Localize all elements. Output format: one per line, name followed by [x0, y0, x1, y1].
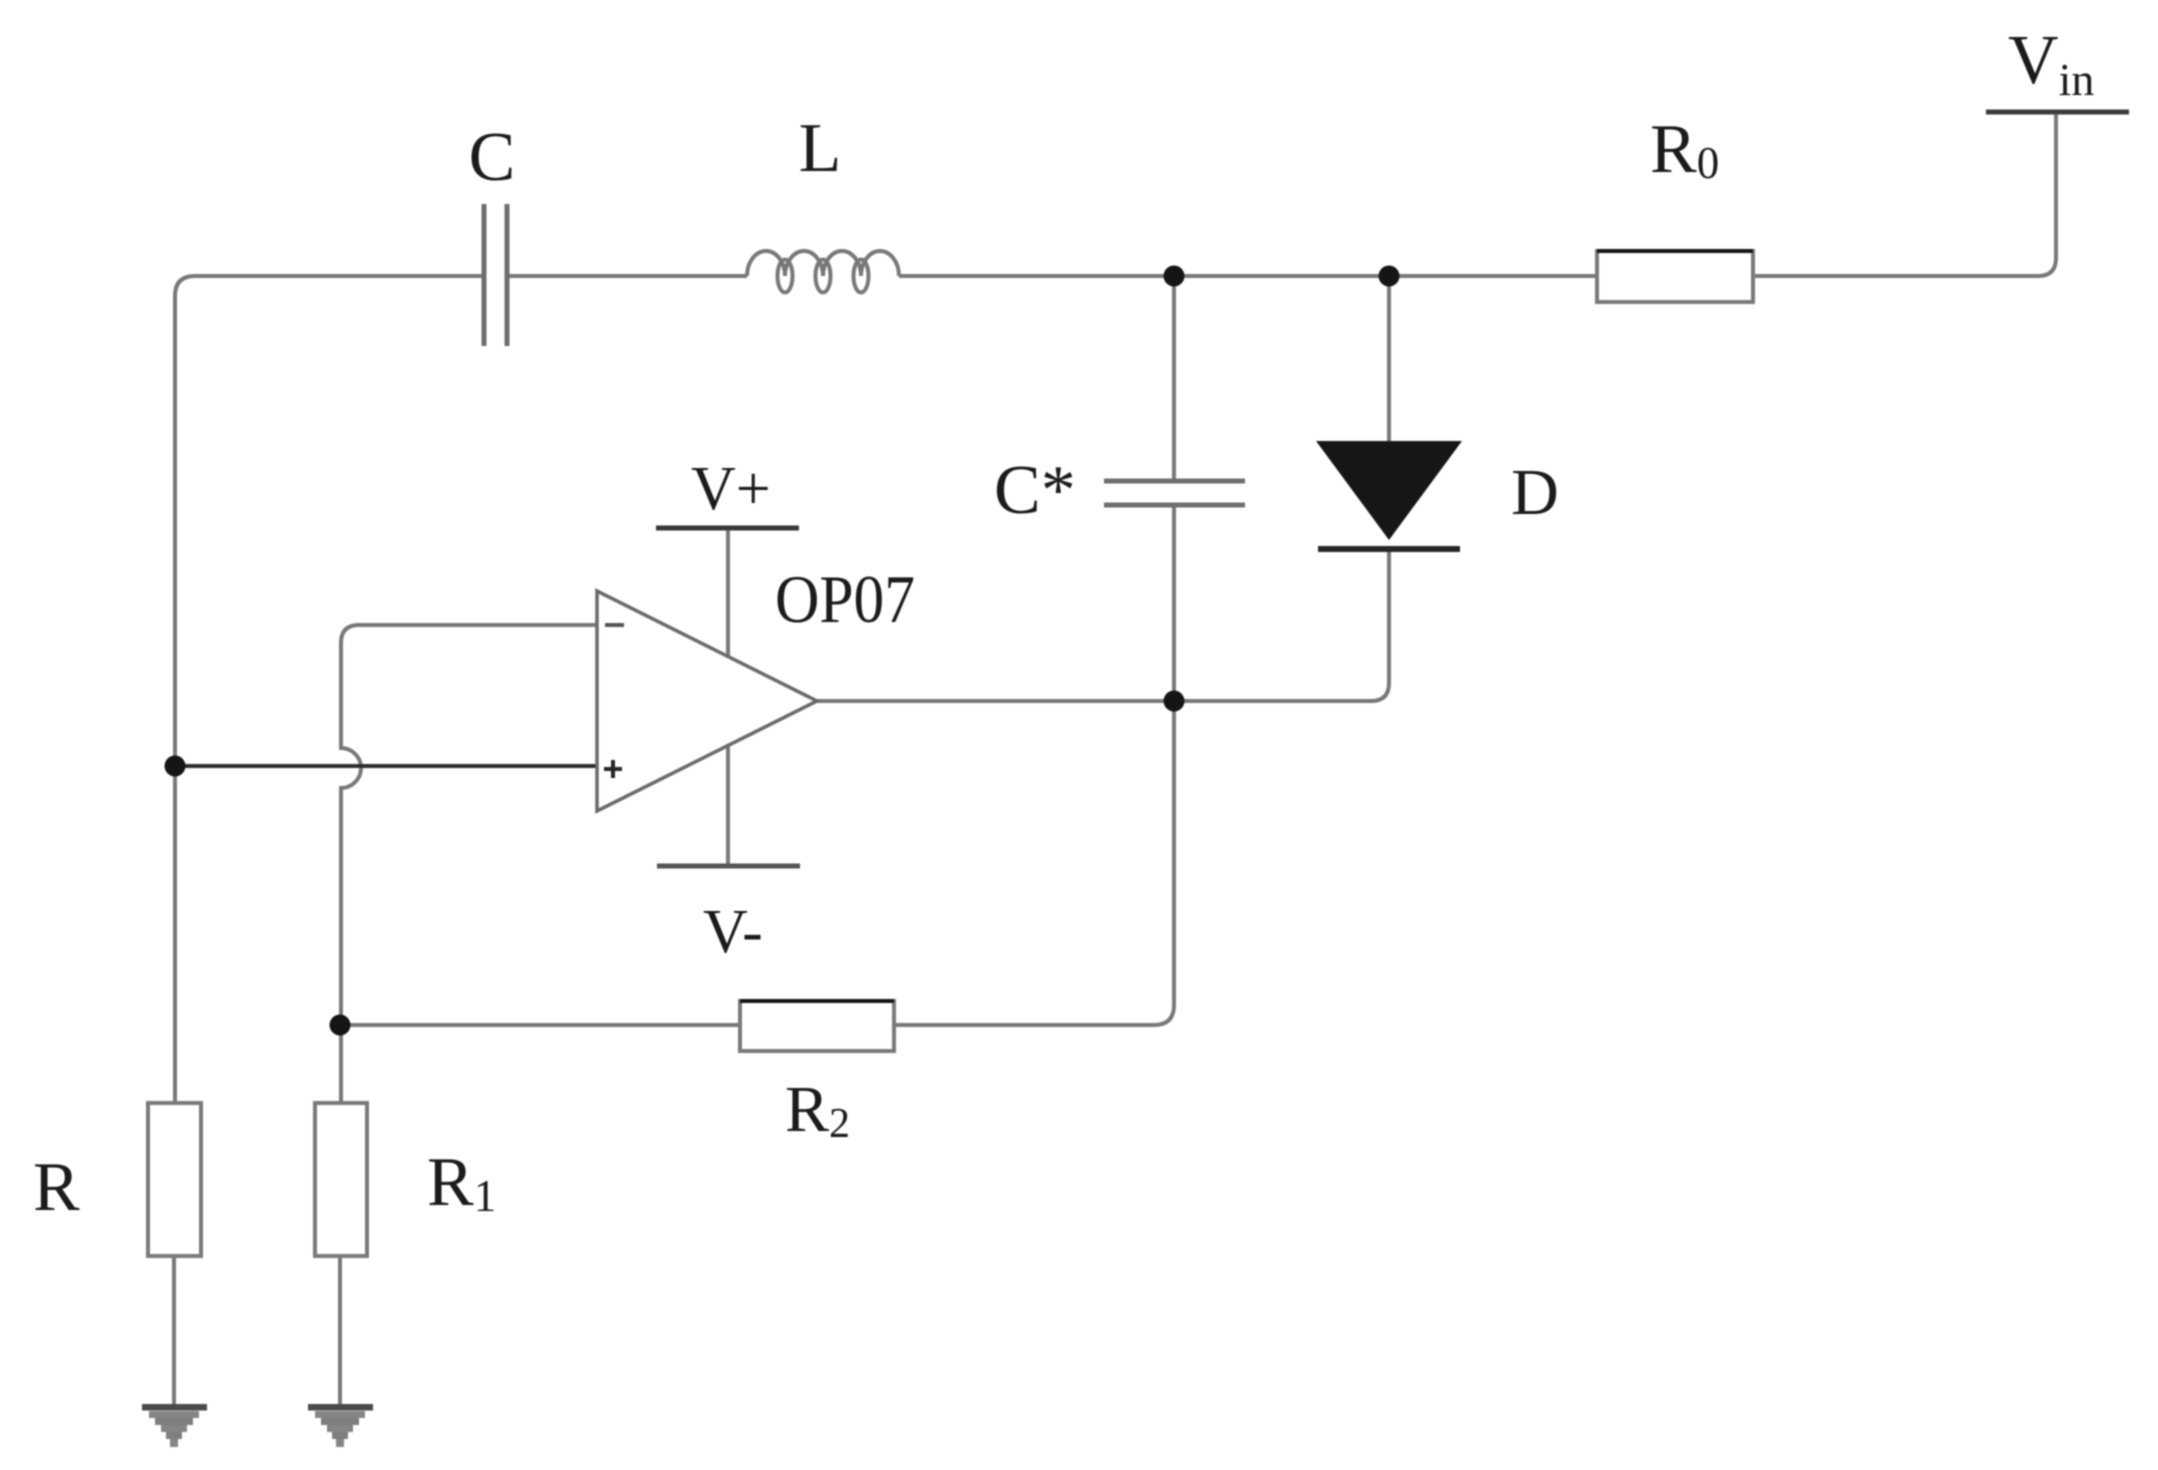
svg-text:C*: C* — [994, 452, 1076, 529]
svg-text:V-: V- — [703, 898, 763, 966]
svg-text:L: L — [799, 110, 842, 187]
svg-text:OP07: OP07 — [775, 561, 915, 637]
svg-text:C: C — [469, 119, 516, 196]
svg-text:D: D — [1511, 456, 1559, 529]
svg-text:R: R — [33, 1149, 80, 1226]
svg-text:V+: V+ — [691, 455, 771, 523]
